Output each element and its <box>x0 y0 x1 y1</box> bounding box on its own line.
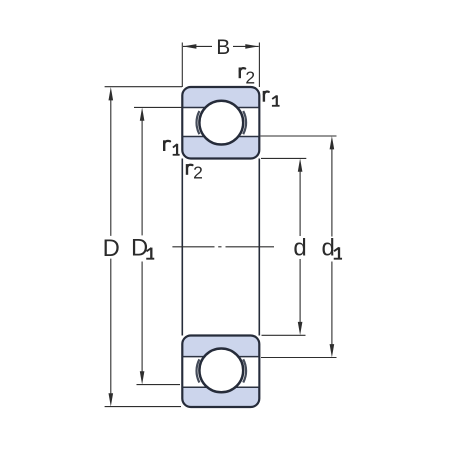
bore face line right <box>258 159 260 336</box>
outer ring top edge (bottom section) <box>182 386 259 388</box>
cage arc left (top section) <box>197 111 200 134</box>
d arrow bottom <box>298 322 303 335</box>
inner ring bottom edge (bottom section) <box>182 356 259 358</box>
label r2 top right <box>239 68 241 79</box>
svg-text:D: D <box>131 235 148 262</box>
ball (top section) <box>199 101 243 145</box>
d extension line bottom <box>262 334 306 336</box>
svg-text:D: D <box>103 235 120 262</box>
D1 arrow top <box>140 107 145 120</box>
cage arc right (bottom section) <box>243 359 246 382</box>
B dimension line <box>183 45 212 47</box>
ball (bottom section) <box>199 349 243 393</box>
label r1 right <box>263 91 265 102</box>
D1 extension line top <box>134 106 182 108</box>
D extension line top <box>105 86 182 88</box>
B extension line left <box>181 43 183 88</box>
bearing outer ring top cross-section (body) <box>182 87 259 159</box>
svg-text:d: d <box>293 235 306 262</box>
svg-text:2: 2 <box>193 163 203 183</box>
label r2 bottom left <box>186 164 188 175</box>
bore face line left <box>181 159 183 336</box>
d1 arrow bottom <box>330 344 335 357</box>
cage arc left (bottom section) <box>197 359 200 382</box>
d1 extension line top <box>261 135 337 137</box>
D dimension line <box>110 99 112 236</box>
D1 extension line bottom <box>137 384 181 386</box>
raceway gap band top <box>183 108 258 137</box>
B arrow left <box>183 44 196 49</box>
outer ring bottom edge (top section) <box>182 107 259 109</box>
B arrow right <box>245 44 258 49</box>
D arrow bottom <box>109 393 114 406</box>
svg-text:B: B <box>216 36 230 59</box>
centerline (axis) <box>172 246 214 248</box>
bearing bottom cross-section (body) <box>182 336 259 408</box>
cage arc right (top section) <box>243 111 246 134</box>
D1 dimension line <box>141 120 143 236</box>
svg-text:2: 2 <box>245 67 255 87</box>
inner ring top edge (top section) <box>182 136 259 138</box>
d extension line top <box>261 157 306 159</box>
svg-text:d: d <box>322 235 335 262</box>
d1 arrow top <box>330 136 335 149</box>
d1 dimension line <box>331 149 333 237</box>
D1 arrow bottom <box>140 371 145 384</box>
d arrow top <box>298 158 303 171</box>
D arrow top <box>109 87 114 100</box>
d dimension line <box>299 171 301 237</box>
d1 extension line bottom <box>261 357 337 359</box>
label r1 left <box>163 140 165 151</box>
raceway gap band bottom <box>183 357 258 388</box>
B extension line right <box>258 43 260 88</box>
D extension line bottom <box>105 406 181 408</box>
